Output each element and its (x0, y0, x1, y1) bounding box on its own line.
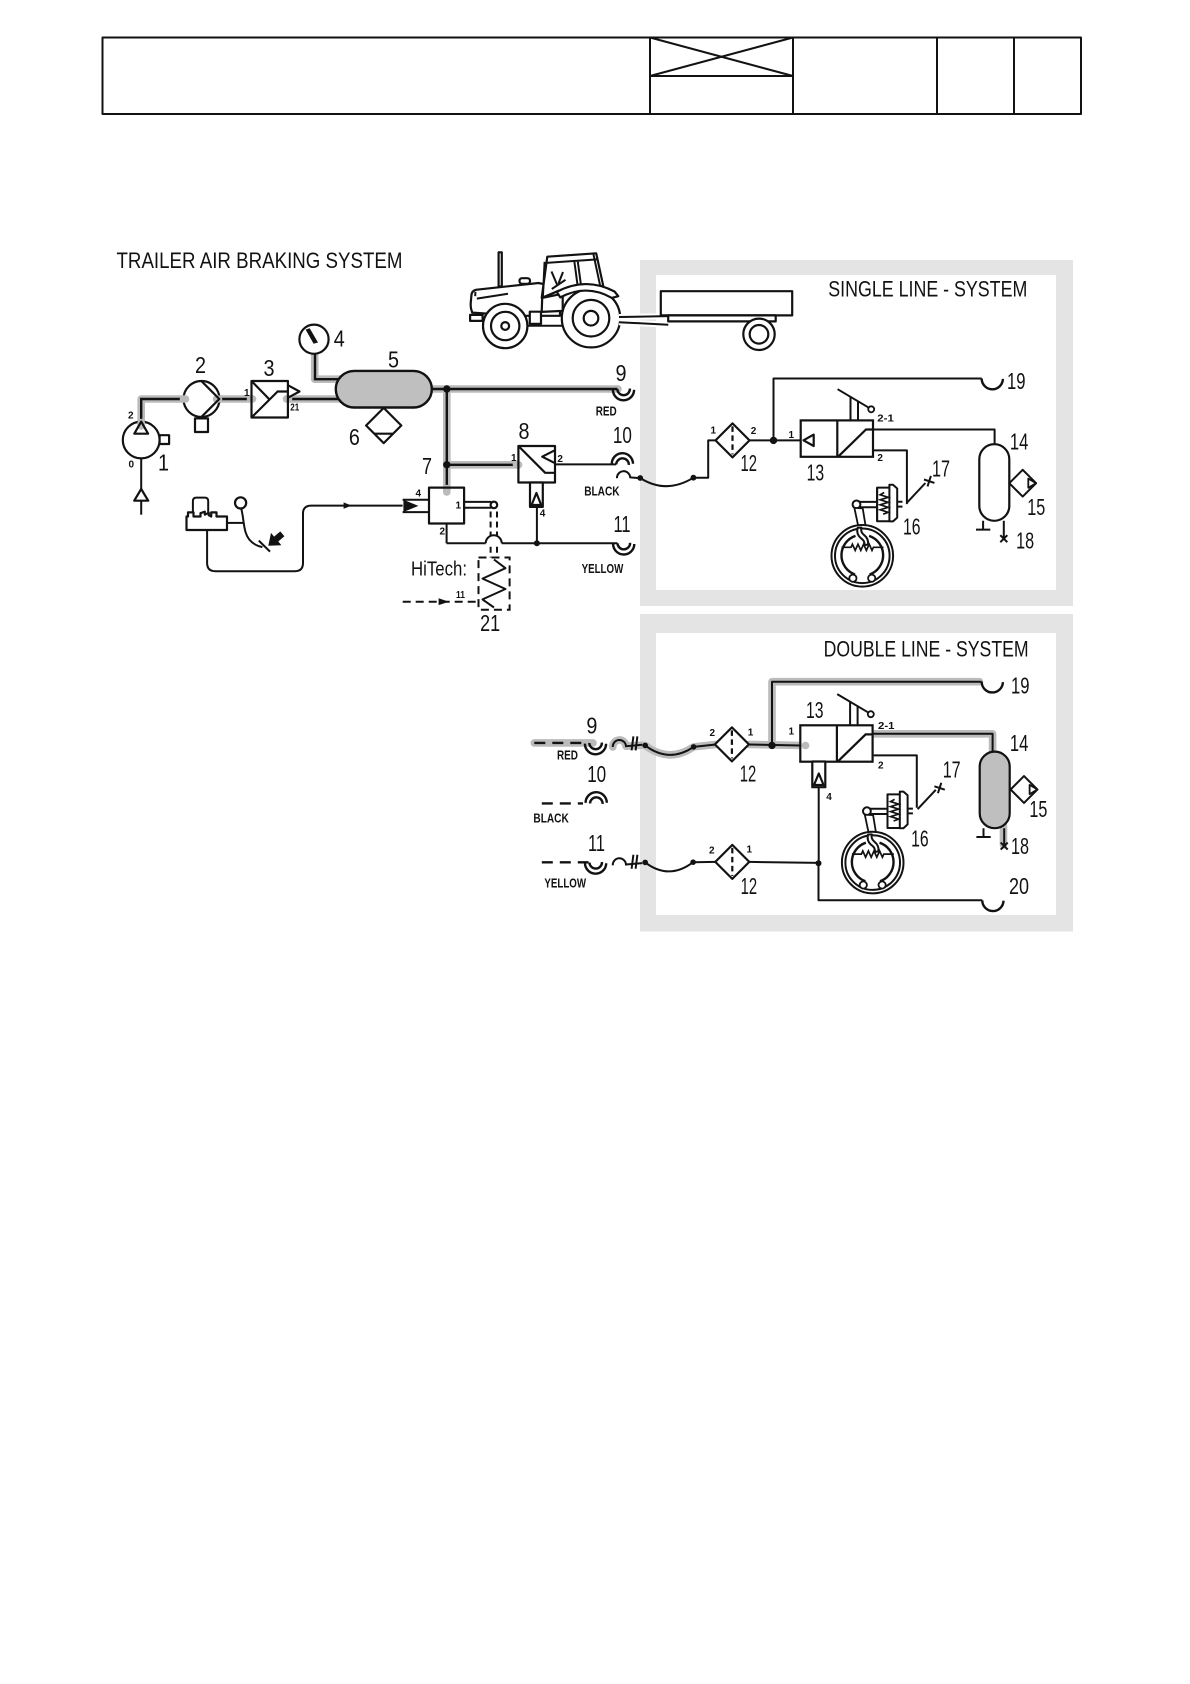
svg-text:21: 21 (290, 403, 299, 414)
svg-text:5: 5 (388, 347, 399, 373)
svg-text:16: 16 (911, 826, 929, 852)
svg-text:1: 1 (711, 425, 717, 436)
svg-text:2: 2 (709, 846, 715, 857)
svg-text:YELLOW: YELLOW (582, 562, 624, 576)
svg-text:RED: RED (596, 405, 617, 419)
svg-text:2: 2 (710, 728, 716, 739)
svg-text:12: 12 (741, 873, 758, 899)
svg-text:2: 2 (128, 410, 134, 421)
svg-text:8: 8 (519, 418, 530, 444)
svg-text:2: 2 (751, 426, 757, 437)
svg-text:DOUBLE LINE - SYSTEM: DOUBLE LINE - SYSTEM (824, 637, 1029, 662)
svg-text:17: 17 (932, 456, 950, 482)
svg-text:15: 15 (1029, 796, 1047, 822)
svg-text:YELLOW: YELLOW (544, 876, 586, 890)
svg-text:1: 1 (244, 388, 250, 399)
svg-text:1: 1 (158, 450, 169, 476)
svg-text:18: 18 (1016, 528, 1034, 554)
svg-text:6: 6 (349, 424, 360, 450)
svg-text:14: 14 (1010, 730, 1029, 756)
svg-text:2: 2 (878, 761, 884, 772)
svg-text:13: 13 (806, 697, 824, 723)
svg-text:14: 14 (1010, 429, 1029, 455)
svg-text:RED: RED (557, 749, 578, 763)
svg-text:SINGLE LINE - SYSTEM: SINGLE LINE - SYSTEM (828, 277, 1027, 302)
svg-text:2-1: 2-1 (877, 414, 894, 425)
svg-text:12: 12 (741, 450, 758, 476)
svg-text:20: 20 (1009, 873, 1029, 899)
svg-text:16: 16 (903, 514, 921, 540)
svg-text:9: 9 (586, 713, 597, 739)
svg-text:11: 11 (588, 830, 605, 856)
svg-text:4: 4 (826, 792, 832, 803)
svg-text:10: 10 (613, 422, 632, 448)
svg-text:4: 4 (334, 326, 345, 352)
svg-text:4: 4 (416, 488, 422, 499)
svg-text:13: 13 (807, 459, 825, 485)
svg-text:11: 11 (456, 590, 465, 601)
svg-text:21: 21 (480, 610, 500, 636)
svg-text:1: 1 (511, 453, 517, 464)
svg-text:1: 1 (748, 728, 754, 739)
svg-text:11: 11 (614, 511, 631, 537)
svg-text:2: 2 (440, 527, 446, 538)
svg-text:19: 19 (1011, 673, 1030, 699)
svg-text:7: 7 (422, 453, 432, 479)
svg-text:12: 12 (740, 760, 757, 786)
svg-text:18: 18 (1011, 833, 1029, 859)
svg-text:3: 3 (264, 355, 275, 381)
svg-text:1: 1 (789, 430, 795, 441)
svg-text:15: 15 (1027, 494, 1045, 520)
svg-text:4: 4 (540, 509, 546, 520)
svg-text:BLACK: BLACK (584, 484, 619, 498)
svg-text:1: 1 (456, 500, 462, 511)
svg-text:1: 1 (747, 844, 753, 855)
svg-text:0: 0 (129, 460, 135, 471)
svg-text:TRAILER AIR BRAKING SYSTEM: TRAILER AIR BRAKING SYSTEM (117, 248, 403, 273)
svg-text:17: 17 (943, 757, 961, 783)
svg-text:19: 19 (1007, 368, 1026, 394)
svg-text:HiTech:: HiTech: (411, 558, 467, 580)
svg-text:9: 9 (616, 360, 627, 386)
svg-text:2: 2 (877, 453, 883, 464)
svg-text:1: 1 (789, 727, 795, 738)
svg-text:2: 2 (195, 352, 206, 378)
svg-text:BLACK: BLACK (533, 812, 568, 826)
svg-text:2: 2 (557, 454, 563, 465)
svg-text:2-1: 2-1 (878, 721, 895, 732)
svg-text:10: 10 (587, 761, 606, 787)
